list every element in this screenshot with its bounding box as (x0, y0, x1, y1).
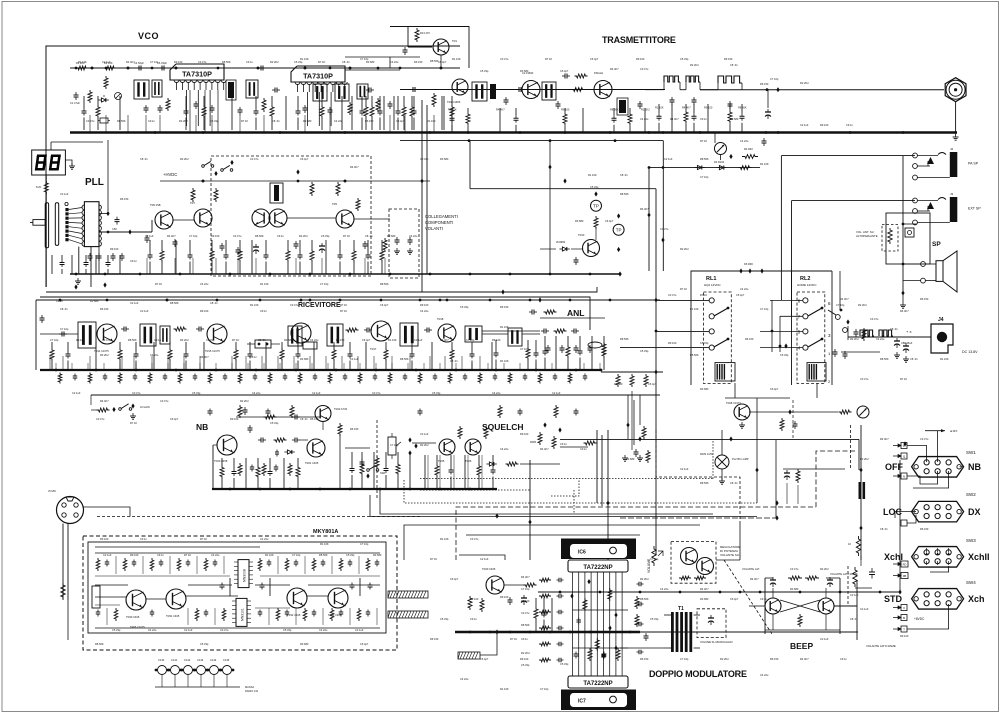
node relay top (748, 268, 751, 273)
svg-text:PLL: PLL (85, 177, 104, 188)
svg-text:R1 10K: R1 10K (940, 357, 949, 361)
svg-text:C7 10p: C7 10p (150, 60, 159, 64)
svg-text:TR40 C945: TR40 C945 (482, 567, 496, 571)
svg-text:R6 150: R6 150 (745, 337, 754, 341)
wire pll out right (99, 231, 130, 233)
switch S1b (221, 169, 224, 172)
extra diamonds (128, 229, 131, 234)
resistor nb R70 (274, 438, 287, 442)
capacitor anl C90 (541, 330, 544, 332)
node pll vcc (106, 211, 109, 216)
svg-text:C8 .01: C8 .01 (272, 119, 280, 123)
svg-text:MN3101: MN3101 (241, 608, 245, 621)
svg-text:R3 680: R3 680 (284, 338, 293, 342)
node sw (840, 309, 843, 312)
wire pa sp line (781, 155, 915, 157)
capacitor C64 (221, 243, 223, 246)
svg-text:C5 33p: C5 33p (440, 617, 449, 621)
resistor R14 (432, 93, 436, 107)
channel selector bars (45, 203, 48, 248)
svg-text:C6 4p7: C6 4p7 (362, 338, 371, 342)
svg-text:C50: C50 (112, 227, 117, 231)
transistor TR20 nb (217, 435, 237, 455)
svg-text:C3 47u: C3 47u (102, 338, 111, 342)
junction dots (91, 67, 94, 70)
svg-text:C144: C144 (210, 658, 217, 662)
meter M2 S (857, 406, 869, 418)
svg-text:C3 47u: C3 47u (870, 317, 879, 321)
svg-text:C2 1uF: C2 1uF (420, 432, 429, 436)
svg-text:TA7222NP: TA7222NP (583, 565, 612, 571)
svg-text:R3 680: R3 680 (700, 597, 709, 601)
wire VCO top rail (70, 67, 460, 69)
capacitor C16 (258, 67, 261, 69)
svg-text:NB: NB (196, 422, 208, 432)
svg-text:C2 1uF: C2 1uF (102, 60, 111, 64)
relay RL2 box (797, 292, 825, 384)
meter TP1 (591, 200, 602, 211)
node m1 (729, 154, 732, 159)
ic U2 TA7310P (291, 66, 345, 82)
svg-text:R9 100: R9 100 (668, 341, 677, 345)
svg-text:R9 100: R9 100 (704, 105, 713, 109)
coil L3 (228, 82, 234, 98)
svg-text:C9 1n: C9 1n (154, 338, 161, 342)
svg-text:R8 56K: R8 56K (610, 107, 619, 111)
wire pll out line A (46, 287, 597, 292)
svg-text:J4: J4 (938, 317, 944, 323)
transformer L6 (335, 84, 349, 101)
svg-text:C4 22u: C4 22u (211, 553, 220, 557)
svg-text:C2 1uF: C2 1uF (820, 637, 829, 641)
wire mic down (63, 600, 85, 612)
svg-text:R7 1K: R7 1K (130, 421, 137, 425)
svg-text:R9 100: R9 100 (76, 338, 85, 342)
svg-text:C5 33p: C5 33p (590, 185, 599, 189)
pll extra caps (85, 260, 87, 263)
capacitor C60 volanti (396, 237, 398, 240)
svg-text:C4 56pF: C4 56pF (134, 61, 144, 65)
resistor R3 (104, 76, 108, 89)
wire coil links (645, 89, 664, 91)
svg-text:C6 4p7: C6 4p7 (605, 219, 614, 223)
svg-text:R8 56K: R8 56K (222, 60, 231, 64)
svg-text:VOLANTE LATO RAME: VOLANTE LATO RAME (866, 644, 896, 648)
svg-text:C5 33p: C5 33p (210, 119, 219, 123)
svg-text:R3 680: R3 680 (387, 234, 396, 238)
svg-text:R7 1K: R7 1K (340, 303, 347, 307)
pll fan wires (69, 208, 82, 210)
wire squelch drop A (596, 430, 598, 503)
svg-text:R9 100: R9 100 (100, 537, 109, 541)
svg-text:R1 10K: R1 10K (690, 307, 699, 311)
svg-text:C6 4p7: C6 4p7 (590, 57, 599, 61)
svg-text:C9 1n: C9 1n (148, 119, 155, 123)
mky extra wires (95, 584, 128, 586)
resistor R83 (506, 462, 519, 466)
svg-text:T: T (903, 628, 905, 632)
svg-text:C5 33p: C5 33p (321, 234, 330, 238)
sw2 terminals (901, 520, 907, 526)
wire pa sp drop (780, 156, 782, 301)
svg-text:R3 680: R3 680 (790, 587, 799, 591)
jack J3 EXT SP (950, 197, 958, 222)
svg-text:C5 33p: C5 33p (112, 628, 121, 632)
svg-text:C6 4p7: C6 4p7 (380, 303, 389, 307)
capacitor C120 tank (859, 482, 862, 499)
capacitor C11 (195, 101, 197, 104)
ic6 right parts (635, 596, 639, 609)
svg-text:C9 1n: C9 1n (700, 117, 707, 121)
svg-text:C7 10p: C7 10p (50, 338, 59, 342)
transformer L20 (327, 324, 343, 346)
svg-text:C8 .01: C8 .01 (342, 60, 350, 64)
wire beep feed (847, 566, 849, 606)
wire bias block (549, 140, 551, 274)
svg-text:DOPPIO MODULATORE: DOPPIO MODULATORE (649, 669, 747, 679)
filter CFL (303, 342, 317, 349)
coil L11 (619, 100, 626, 113)
svg-text:2N4969: 2N4969 (556, 240, 566, 244)
wire squelch drop B (601, 435, 603, 506)
svg-text:C6 4p7: C6 4p7 (648, 382, 657, 386)
display DS1 digits (35, 155, 47, 171)
svg-text:VOLUME SL MICROAGGIO: VOLUME SL MICROAGGIO (700, 640, 733, 644)
svg-text:C7 10p: C7 10p (836, 303, 845, 307)
svg-text:C3 47u: C3 47u (160, 399, 169, 403)
svg-text:R2 2K2: R2 2K2 (180, 338, 189, 342)
capacitor C22 bias (404, 47, 406, 50)
svg-text:OFF: OFF (885, 462, 903, 472)
capacitor nb C101 (258, 439, 261, 441)
transformer T1 (671, 612, 674, 652)
squelch stubs (427, 455, 429, 489)
ic IC7 body (568, 676, 628, 688)
mky input pot (92, 586, 100, 608)
svg-text:C7 10p: C7 10p (650, 557, 659, 561)
svg-text:C6 4p7: C6 4p7 (730, 597, 739, 601)
transformer L17 (140, 324, 156, 346)
svg-text:R7 1K: R7 1K (430, 557, 437, 561)
svg-text:R7 1K: R7 1K (700, 293, 707, 297)
svg-text:TA7310P: TA7310P (182, 70, 212, 79)
rx lower parts (55, 363, 57, 370)
wire af rail ext (640, 631, 858, 633)
svg-text:C2 1uF: C2 1uF (130, 301, 139, 305)
ic U1 TA7310P (170, 64, 224, 80)
svg-text:R4 4K7: R4 4K7 (640, 207, 649, 211)
svg-text:C7 10p: C7 10p (700, 175, 709, 179)
svg-text:R1 10K: R1 10K (588, 173, 597, 177)
cable af (458, 652, 480, 659)
svg-text:R4 4K7: R4 4K7 (540, 447, 549, 451)
node antenna tap (776, 87, 779, 92)
svg-text:C5 33p: C5 33p (192, 391, 201, 395)
svg-text:C4 22u: C4 22u (500, 447, 509, 451)
transistor TR10 (583, 240, 600, 257)
svg-text:R3 680: R3 680 (575, 219, 584, 223)
capacitor C27 (516, 89, 519, 91)
svg-text:R2 2K2: R2 2K2 (640, 577, 649, 581)
svg-text:R6 150: R6 150 (500, 305, 509, 309)
wire mid verticals (421, 100, 423, 292)
svg-text:R9 100: R9 100 (561, 107, 570, 111)
switch SW1 squelch (367, 469, 370, 472)
svg-text:R6 150: R6 150 (920, 527, 929, 531)
svg-text:J5 MIC: J5 MIC (48, 489, 56, 493)
capacitor C6 (159, 67, 162, 69)
svg-text:C6 4p7: C6 4p7 (736, 293, 745, 297)
svg-text:D6 R90: D6 R90 (744, 262, 753, 266)
svg-text:R2 2K2: R2 2K2 (720, 657, 729, 661)
svg-text:C8 .01: C8 .01 (365, 234, 373, 238)
coil L13 (686, 76, 700, 82)
rx right links (482, 333, 508, 335)
wire sw right (841, 351, 880, 353)
svg-text:TR22 A733: TR22 A733 (334, 407, 348, 411)
node dots vco rail (75, 67, 78, 70)
svg-text:HI GAIN: HI GAIN (140, 405, 150, 409)
cap row C140-C145 (158, 666, 167, 675)
svg-text:C5 33p: C5 33p (521, 663, 530, 667)
mky top rails (95, 552, 380, 554)
svg-text:C6 33pF: C6 33pF (157, 61, 167, 65)
svg-text:R8 56K: R8 56K (319, 553, 328, 557)
capacitor C68 (321, 243, 323, 246)
beep box (764, 578, 766, 634)
wire lamp (721, 430, 723, 455)
wire bias line +8V (390, 27, 469, 69)
transformer L16 input (78, 322, 96, 348)
resistor R36 (356, 198, 360, 211)
resistor R34 (310, 182, 314, 196)
svg-text:R4 4K7: R4 4K7 (700, 587, 709, 591)
svg-text:C3 47u: C3 47u (250, 157, 259, 161)
node vcc (859, 525, 862, 530)
mid rail parts (616, 374, 620, 387)
rx below resistors (58, 373, 62, 384)
transistor TR41 reg (681, 548, 698, 565)
transistor TR6 (155, 211, 173, 229)
dashed inner box (389, 209, 419, 278)
wire pll bottom (46, 286, 130, 288)
node tx bias (662, 166, 665, 169)
svg-text:TR17: TR17 (370, 347, 377, 351)
ground tr28 (741, 422, 743, 425)
svg-text:R3 680: R3 680 (300, 642, 309, 646)
sw block links (960, 466, 964, 468)
svg-text:TR1: TR1 (452, 39, 457, 43)
wire bias bottom (595, 227, 597, 240)
svg-text:TR26: TR26 (465, 459, 472, 463)
svg-text:C8 .01: C8 .01 (60, 307, 68, 311)
wire rx rail stubs (49, 356, 51, 370)
nb box wires (212, 445, 214, 489)
rx right parts (508, 328, 522, 346)
capacitor anl C91 (571, 330, 574, 332)
wire vco link (224, 67, 291, 69)
svg-text:C9 1n: C9 1n (246, 60, 253, 64)
transistor TR4 final (594, 81, 612, 99)
resistor nb R73 (375, 456, 379, 469)
svg-text:R8 56K: R8 56K (690, 353, 699, 357)
svg-text:C4 22u: C4 22u (252, 391, 261, 395)
resistor nb R71 (338, 423, 342, 436)
capacitor C53 (112, 253, 114, 256)
wire sw vertical feeds (937, 431, 939, 462)
mky inner wires (95, 575, 230, 577)
svg-text:R8 56K: R8 56K (738, 105, 747, 109)
resistor R93 volume (888, 228, 892, 244)
MKY box dashed (83, 536, 397, 650)
coil L9 (490, 84, 496, 99)
diode nb D10 (284, 451, 287, 453)
resistor R82 (484, 426, 488, 439)
sw1 terminals (901, 443, 907, 449)
diode D5 (559, 248, 562, 250)
svg-text:C2 1uF: C2 1uF (145, 234, 154, 238)
capacitor C80 (59, 333, 62, 335)
svg-text:ANL: ANL (567, 308, 584, 318)
wire long vertical anl (655, 189, 657, 555)
svg-text:R8 56K: R8 56K (620, 337, 629, 341)
svg-text:R8 56K: R8 56K (640, 597, 649, 601)
svg-text:R2 2K2: R2 2K2 (100, 353, 109, 357)
mky out cables (388, 591, 428, 598)
svg-text:C9 1n: C9 1n (560, 442, 567, 446)
transistor TR16 (291, 323, 311, 343)
svg-text:C5 33p: C5 33p (700, 341, 709, 345)
svg-text:C9 1n: C9 1n (250, 355, 257, 359)
psu hang parts (783, 468, 845, 470)
capacitor C36 (767, 109, 769, 112)
ground display (65, 160, 72, 165)
svg-text:TA7310P: TA7310P (303, 72, 333, 81)
svg-text:C6 4p7: C6 4p7 (170, 417, 179, 421)
jack J2 PA SP (950, 152, 958, 177)
svg-text:C9 1n: C9 1n (760, 597, 767, 601)
svg-text:COMPONENTI: COMPONENTI (425, 220, 453, 225)
svg-text:C2 1uF: C2 1uF (72, 391, 81, 395)
svg-text:R4 4K7: R4 4K7 (100, 399, 109, 403)
wire vcc parts (860, 556, 862, 566)
svg-text:R1 10K: R1 10K (265, 553, 274, 557)
svg-text:C4 22u: C4 22u (740, 139, 749, 143)
ic MN3101 (236, 598, 247, 626)
wire tx aux line2 (470, 188, 656, 190)
svg-text:MKY801A: MKY801A (313, 529, 338, 535)
wire squelch drop C (607, 430, 609, 560)
transistor TR26 (465, 439, 481, 455)
svg-text:R3 680: R3 680 (90, 299, 99, 303)
sw4 wires (907, 604, 927, 612)
svg-text:R8 56K: R8 56K (400, 357, 409, 361)
svg-text:C8 .01: C8 .01 (300, 417, 308, 421)
mky transistor Q2 (166, 589, 186, 609)
transistor TR14 (97, 324, 117, 344)
svg-text:BEEP: BEEP (790, 641, 813, 651)
wire relay inputs (656, 299, 709, 301)
resistor R32 (191, 188, 195, 202)
svg-text:8.2K: 8.2K (36, 185, 42, 189)
svg-text:C3 47u: C3 47u (86, 119, 95, 123)
capacitor C19 (329, 107, 331, 110)
switch SW2 block (912, 501, 964, 521)
svg-text:R7 1K: R7 1K (340, 309, 347, 313)
svg-text:TR25: TR25 (438, 459, 445, 463)
capacitor C12 (211, 105, 213, 108)
svg-text:R6 150: R6 150 (760, 82, 769, 86)
resistor R50 (174, 327, 187, 331)
svg-text:RICEVITORE: RICEVITORE (298, 302, 341, 309)
wire receiver top rail (36, 299, 660, 301)
pll left parts (51, 255, 53, 274)
switch SW3 block (912, 547, 964, 568)
transistor TR42 reg (697, 558, 714, 575)
sw2 wire left (895, 512, 916, 518)
svg-text:R4 4K7: R4 4K7 (840, 297, 849, 301)
anl sub rail (540, 317, 605, 319)
svg-text:TA7222NP: TA7222NP (583, 681, 612, 687)
sw3 top wires (937, 530, 939, 548)
capacitor C4 (136, 67, 139, 69)
mic cable (62, 524, 64, 601)
antenna connector J1 (949, 83, 962, 96)
resistor mic R (61, 583, 65, 599)
svg-text:C142: C142 (184, 658, 191, 662)
capacitor C52 (98, 253, 100, 256)
svg-text:R1 10K: R1 10K (655, 105, 664, 109)
svg-text:R4 4K7: R4 4K7 (880, 437, 889, 441)
resistor R96 (853, 567, 857, 587)
wire ext sp line (792, 200, 916, 202)
svg-text:R1 10K: R1 10K (500, 359, 509, 363)
node rx (166, 299, 169, 302)
svg-text:R1 10K: R1 10K (452, 57, 461, 61)
sw4 terminals (901, 605, 907, 611)
svg-text:C2 1uF: C2 1uF (414, 338, 423, 342)
capacitor C117 (834, 349, 836, 352)
svg-text:N: N (903, 475, 905, 479)
resistor R11 (376, 98, 380, 112)
svg-text:TP: TP (593, 204, 599, 209)
resistor R22 (742, 155, 758, 159)
mky transistor Q1 (126, 590, 146, 610)
svg-text:R9 100: R9 100 (500, 595, 509, 599)
svg-text:R6 150: R6 150 (724, 57, 733, 61)
wire af drop (529, 460, 531, 560)
svg-text:R9 100: R9 100 (492, 338, 501, 342)
capacitor C45 (763, 138, 765, 141)
svg-text:C7 10p: C7 10p (521, 587, 530, 591)
transformer L19 (288, 326, 302, 346)
resistor R1 (76, 66, 88, 70)
nb extra parts (220, 466, 224, 479)
svg-text:C4 22u: C4 22u (310, 338, 319, 342)
svg-text:+ x: + x (906, 329, 911, 334)
svg-text:SW4: SW4 (966, 580, 976, 585)
svg-text:R2 2K2: R2 2K2 (420, 443, 429, 447)
dashed volume box (882, 225, 898, 251)
svg-text:VOLANTE LATO RAME: VOLANTE LATO RAME (830, 572, 858, 576)
wire beep (749, 605, 765, 607)
wire main ground rail (70, 131, 957, 133)
dashed box t1 right (697, 609, 726, 638)
detector diode (588, 342, 602, 348)
svg-text:RD: RD (903, 563, 907, 567)
svg-text:R3 680: R3 680 (700, 387, 709, 391)
capacitor C61 volanti (409, 237, 411, 240)
